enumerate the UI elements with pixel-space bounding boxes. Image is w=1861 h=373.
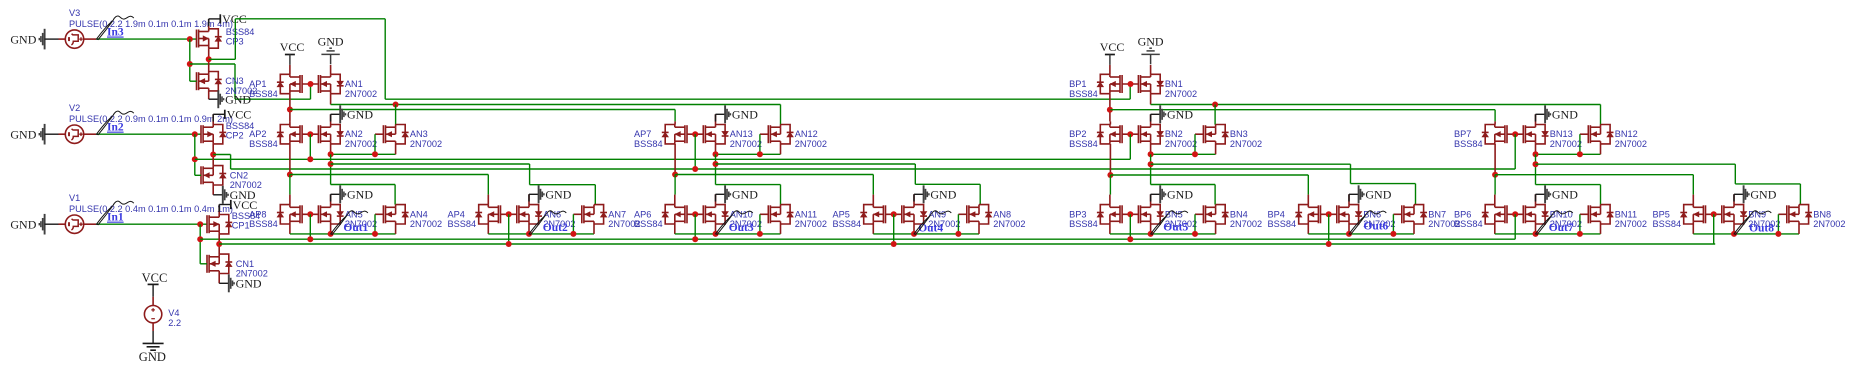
- transistor BN6 (2N7002 NMOS): [1337, 205, 1359, 224]
- node gate at In rail: [1127, 236, 1133, 242]
- wire BN1 source rail y=104.5: [1151, 104, 1601, 106]
- wire BP2/BN2 gate tie: [1122, 133, 1138, 135]
- wire elbow to BN4 drain: [1151, 184, 1216, 186]
- transistor CN2 (2N7002 NMOS): [201, 166, 223, 185]
- svg-text:2N7002: 2N7002: [345, 139, 377, 149]
- node AN13.src at rail164: [713, 161, 719, 167]
- svg-text:AP5: AP5: [833, 209, 850, 219]
- wire AP1 drain rail y=109.5: [290, 109, 675, 111]
- wire BN12 source lead: [1600, 144, 1602, 154]
- wire BP6 drain lead: [1494, 224, 1496, 234]
- wire BP1 drain rail y=109.7: [1110, 109, 1495, 111]
- transistor BP6 (BSS84 PMOS, mirrored): [1485, 205, 1507, 224]
- port squiggle Out3: [716, 215, 733, 234]
- transistor AN6 (2N7002 NMOS): [517, 205, 539, 224]
- node chain at AN10 source: [713, 231, 719, 237]
- svg-text:Out2: Out2: [543, 222, 568, 234]
- ground flag at AN13 drain: [715, 114, 717, 124]
- svg-text:BN7: BN7: [1428, 209, 1446, 219]
- node AN2.src at rail164: [328, 161, 334, 167]
- wire AN4 source lead: [395, 224, 397, 234]
- node In3 branch: [187, 61, 193, 67]
- wire BP5 source lead: [1692, 195, 1694, 205]
- node gate at In rail: [692, 236, 698, 242]
- wire BN4 drain lead: [1215, 204, 1217, 206]
- wire AP2 drain to AP8 source: [289, 175, 291, 195]
- svg-text:VCC: VCC: [227, 108, 252, 122]
- transistor CP2 (BSS84 PMOS): [201, 125, 223, 144]
- wire elbow to AN4 drain: [331, 184, 396, 186]
- wire BP5 drain lead: [1692, 224, 1694, 234]
- wire AP1 drain down: [289, 94, 291, 122]
- svg-text:CP2: CP2: [226, 131, 244, 141]
- node chain at AN2 source: [328, 151, 334, 157]
- transistor BN10 (2N7002 NMOS): [1523, 205, 1545, 224]
- wire out chain Out7: [1495, 233, 1601, 235]
- wire AP5 source lead: [872, 195, 874, 205]
- wire In1 vertical to CN1 gate: [199, 224, 201, 264]
- svg-text:2N7002: 2N7002: [1165, 89, 1197, 99]
- svg-text:GND: GND: [139, 350, 166, 364]
- transistor BP2 (BSS84 PMOS, mirrored): [1100, 125, 1122, 144]
- svg-text:2N7002: 2N7002: [730, 139, 762, 149]
- ground flag at V1 negative terminal: [39, 214, 44, 235]
- node gate at In rail: [891, 241, 897, 247]
- wire BP7/BN13 gate tie: [1507, 133, 1523, 135]
- wire V2 minus to source: [45, 133, 59, 135]
- wire V4 plus lead: [152, 284, 154, 296]
- svg-text:Out1: Out1: [343, 222, 368, 234]
- port squiggle In3: [97, 20, 114, 39]
- node In1 / CP1 gate: [197, 221, 203, 227]
- wire AP7 drain to AP6 source: [674, 175, 676, 195]
- transistor AP8 (BSS84 PMOS, mirrored): [280, 205, 302, 224]
- wire BN4 gate lead/drop: [1195, 213, 1203, 215]
- node BP7/BN13 gates: [1512, 131, 1518, 137]
- svg-text:BSS84: BSS84: [1069, 89, 1098, 99]
- ground flag at BN9 drain: [1733, 194, 1735, 204]
- wire In1' rail y=244.0: [219, 243, 1715, 245]
- wire gates down to In rail: [1328, 214, 1330, 244]
- wire CN3 gate lead: [190, 80, 197, 82]
- ground flag at CN2 source: [212, 185, 214, 195]
- transistor BN8 (2N7002 NMOS): [1787, 205, 1809, 224]
- transistor AP6 (BSS84 PMOS, mirrored): [665, 205, 687, 224]
- svg-text:BP7: BP7: [1454, 129, 1471, 139]
- wire AP8 drain lead: [289, 224, 291, 234]
- wire AN12 drain drop: [780, 105, 782, 125]
- wire BN12 drain drop: [1600, 105, 1602, 125]
- node BN13.src at rail164: [1533, 161, 1539, 167]
- wire inv3out riser up: [234, 19, 236, 60]
- svg-text:BSS84: BSS84: [1268, 219, 1297, 229]
- wire AP6 drain lead: [674, 224, 676, 234]
- wire AN2.src vertical: [330, 154, 332, 184]
- node In2 rail tap: [192, 156, 198, 162]
- wire BP5/BN9 gate tie: [1706, 213, 1722, 215]
- transistor AN11 (2N7002 NMOS): [768, 205, 790, 224]
- wire In2 rail y=159.3: [195, 158, 1131, 160]
- ground flag above BN1: [1150, 65, 1152, 74]
- wire out chain Out6: [1308, 233, 1414, 235]
- wire In3 vertical to CN3 gate: [189, 39, 191, 81]
- wire AN11 source lead: [780, 224, 782, 234]
- ground flag at BN13 drain: [1535, 114, 1537, 124]
- wire AP2/AN2 gate tie: [302, 133, 318, 135]
- svg-text:BSS84: BSS84: [226, 27, 255, 37]
- wire V4 minus lead: [152, 323, 154, 331]
- wire AP7 source feed: [674, 121, 676, 124]
- wire elbow to AN7 drain: [530, 184, 596, 186]
- port squiggle Out2: [529, 215, 546, 234]
- wire V3 minus to source: [45, 38, 59, 40]
- wire BN8 drain lead: [1798, 204, 1800, 206]
- svg-text:2N7002: 2N7002: [410, 219, 442, 229]
- transistor AN5 (2N7002 NMOS): [318, 205, 340, 224]
- voltage source V4 (2.2V DC): [144, 306, 161, 323]
- node chain at AN7 gate: [570, 231, 576, 237]
- voltage source V2 (pulse): [65, 125, 83, 143]
- wire BP1/BN1 gate tie: [1122, 83, 1138, 85]
- node chain at BN11 gate: [1577, 231, 1583, 237]
- ground flag at AN10 drain: [715, 194, 717, 204]
- svg-text:AN1: AN1: [345, 79, 363, 89]
- wire BN8 gate lead/drop: [1778, 213, 1786, 215]
- ground flag at BN5 drain: [1150, 194, 1152, 204]
- node BP1 drain rail tap: [1107, 107, 1113, 113]
- port squiggle Out4: [914, 215, 931, 234]
- wire rail164 A seg1: [331, 163, 530, 165]
- wire rail175 B seg1 to BP4 source: [1110, 174, 1308, 176]
- node BP2/BN2 gates: [1127, 131, 1133, 137]
- wire chain AN13 source - AN12 gate/source: [716, 153, 781, 155]
- transistor BP3 (BSS84 PMOS, mirrored): [1100, 205, 1122, 224]
- svg-text:AN12: AN12: [795, 129, 818, 139]
- node AP2/AN2 gates: [307, 131, 313, 137]
- wire elbow to AN11 drain: [716, 184, 781, 186]
- transistor BP4 (BSS84 PMOS, mirrored): [1299, 205, 1321, 224]
- node gate at In rail: [506, 241, 512, 247]
- svg-text:GND: GND: [347, 188, 373, 202]
- svg-text:PULSE(0 2.2 0.4m 0.1m 0.1m 0.4: PULSE(0 2.2 0.4m 0.1m 0.1m 0.4m 1m): [69, 204, 233, 214]
- node BP3/BN5 gates: [1127, 211, 1133, 217]
- transistor BN2 (2N7002 NMOS): [1138, 125, 1160, 144]
- wire AP6 source lead: [674, 195, 676, 205]
- transistor AP7 (BSS84 PMOS, mirrored): [665, 125, 687, 144]
- svg-text:BSS84: BSS84: [448, 219, 477, 229]
- wire BN11 drain lead: [1600, 204, 1602, 206]
- wire AN4 drain lead: [395, 204, 397, 206]
- svg-text:Out5: Out5: [1163, 221, 1188, 233]
- transistor BN3 (2N7002 NMOS): [1203, 125, 1225, 144]
- node BP4/BN6 gates: [1326, 211, 1332, 217]
- wire BN7 source lead: [1413, 224, 1415, 234]
- wire BP4/BN6 gate tie: [1321, 213, 1337, 215]
- node chain at AN6 source: [526, 231, 532, 237]
- wire AP2 drain down to rail174: [289, 144, 291, 175]
- node inverter2 output: [210, 152, 216, 158]
- port squiggle Out6: [1349, 215, 1366, 234]
- svg-text:V3: V3: [69, 8, 80, 18]
- svg-text:GND: GND: [1138, 35, 1164, 49]
- svg-text:CN1: CN1: [236, 259, 254, 269]
- node chain at AN3 gate drop: [372, 151, 378, 157]
- node AP1/AN1 gates: [308, 81, 314, 87]
- transistor AN4 (2N7002 NMOS): [383, 205, 405, 224]
- wire AN8 source lead: [978, 224, 980, 234]
- svg-text:GND: GND: [930, 188, 956, 202]
- node BP5/BN9 gates: [1711, 211, 1717, 217]
- node BP1/BN1 gates: [1128, 81, 1134, 87]
- wire BN2 source lead: [1150, 144, 1152, 154]
- wire inverter3 output: [208, 48, 210, 59]
- transistor AN1 (2N7002 NMOS): [318, 74, 340, 93]
- svg-text:BN8: BN8: [1813, 209, 1831, 219]
- svg-text:2N7002: 2N7002: [1813, 219, 1845, 229]
- svg-text:GND: GND: [732, 108, 758, 122]
- svg-text:V1: V1: [69, 193, 80, 203]
- node BP2 drain / rail175: [1107, 172, 1113, 178]
- svg-text:AN3: AN3: [410, 129, 428, 139]
- wire BP3/BN5 gate tie: [1122, 213, 1138, 215]
- svg-text:BN1: BN1: [1165, 79, 1183, 89]
- wire BN11 source lead: [1600, 224, 1602, 234]
- svg-text:BP3: BP3: [1069, 209, 1086, 219]
- wire AN11 drain lead: [780, 204, 782, 206]
- transistor AP2 (BSS84 PMOS, mirrored): [280, 125, 302, 144]
- node inverter1 output / In1' rail: [216, 241, 222, 247]
- svg-text:BP1: BP1: [1069, 79, 1086, 89]
- wire gates down to In rail: [309, 214, 311, 239]
- port squiggle In1: [97, 206, 114, 225]
- wire AP2 source from AP1 drain: [289, 121, 291, 124]
- wire V1 minus to source: [45, 223, 59, 225]
- svg-text:In2: In2: [107, 122, 124, 134]
- wire AP5/AN9 gate tie: [886, 213, 902, 215]
- transistor BN13 (2N7002 NMOS): [1523, 125, 1545, 144]
- node inverter3 output: [206, 56, 212, 62]
- wire chain BN2 source - BN3 gate/source: [1151, 153, 1216, 155]
- svg-text:V4: V4: [168, 308, 179, 318]
- wire In3 y=99.2 to A gates: [235, 98, 311, 100]
- svg-text:AP8: AP8: [249, 209, 266, 219]
- transistor AN13 (2N7002 NMOS): [703, 125, 725, 144]
- svg-text:GND: GND: [236, 277, 262, 291]
- wire BP7/BN13 gates to rail: [1514, 134, 1516, 169]
- ground symbol below V4: [143, 343, 164, 350]
- svg-text:GND: GND: [1552, 188, 1578, 202]
- wire AP6/AN10 gate tie: [687, 213, 703, 215]
- wire BN4 source lead: [1215, 224, 1217, 234]
- wire chain BN13 source - BN12 gate/source: [1536, 153, 1601, 155]
- wire BN2.src vertical: [1150, 154, 1152, 184]
- wire out chain Out1: [290, 233, 396, 235]
- svg-text:BSS84: BSS84: [634, 139, 663, 149]
- wire BN9 source lead: [1733, 224, 1735, 234]
- wire AP1/AN1 gate tie: [302, 83, 318, 85]
- wire In2 vertical to CN2 gate: [194, 134, 196, 175]
- wire AP7 drain down: [674, 144, 676, 175]
- wire BP2 drain down: [1109, 144, 1111, 175]
- node gate rail tap AP7: [692, 166, 698, 172]
- wire CN1 gate lead: [200, 263, 207, 265]
- wire AN3 drain drop: [395, 105, 397, 125]
- node BP6/BN10 gates: [1512, 211, 1518, 217]
- svg-text:2N7002: 2N7002: [795, 219, 827, 229]
- port squiggle Out7: [1536, 215, 1553, 234]
- svg-text:GND: GND: [347, 108, 373, 122]
- svg-text:AN11: AN11: [795, 209, 817, 219]
- wire out chain Out3: [675, 233, 781, 235]
- node AP4/AN6 gates: [506, 211, 512, 217]
- wire AN11 gate lead/drop: [760, 213, 768, 215]
- wire AN12 source lead: [780, 144, 782, 154]
- wire AP7/AN13 gates to rail: [694, 134, 696, 169]
- wire inverter1 output: [218, 234, 220, 254]
- VCC flag at CP3 source: [208, 19, 210, 29]
- transistor AP5 (BSS84 PMOS, mirrored): [864, 205, 886, 224]
- wire BP6/BN10 gate tie: [1507, 213, 1523, 215]
- wire BN13.src vertical: [1535, 154, 1537, 184]
- svg-text:2N7002: 2N7002: [1615, 219, 1647, 229]
- transistor CN3 (2N7002 NMOS): [197, 72, 219, 91]
- svg-text:GND: GND: [1365, 188, 1391, 202]
- transistor BN9 (2N7002 NMOS): [1722, 205, 1744, 224]
- svg-text:GND: GND: [225, 93, 251, 107]
- svg-text:BSS84: BSS84: [1454, 139, 1483, 149]
- svg-text:AP6: AP6: [634, 209, 651, 219]
- node AN3 drain tap: [393, 102, 399, 108]
- svg-text:BN11: BN11: [1615, 209, 1637, 219]
- node chain at AN5 source: [328, 231, 334, 237]
- wire out chain Out2: [488, 233, 594, 235]
- svg-text:2N7002: 2N7002: [410, 139, 442, 149]
- svg-text:CN3: CN3: [225, 76, 243, 86]
- svg-text:Out3: Out3: [729, 222, 754, 234]
- wire BN3 gate lead: [1195, 133, 1203, 135]
- wire BN6 source lead: [1348, 224, 1350, 234]
- wire In2' rail y=169.0: [231, 168, 1516, 170]
- wire BN11 gate lead/drop: [1580, 213, 1588, 215]
- svg-text:BSS84: BSS84: [1069, 139, 1098, 149]
- wire BP4 drain lead: [1307, 224, 1309, 234]
- svg-text:Out7: Out7: [1549, 222, 1574, 234]
- ground flag at AN5 drain: [330, 194, 332, 204]
- svg-text:AP2: AP2: [249, 129, 266, 139]
- svg-text:AP4: AP4: [448, 209, 465, 219]
- svg-text:GND: GND: [732, 188, 758, 202]
- svg-text:BSS84: BSS84: [1454, 219, 1483, 229]
- ground flag at AN9 drain: [913, 194, 915, 204]
- wire chain AN2 source - AN3 gate/source: [331, 153, 396, 155]
- transistor CP1 (BSS84 PMOS): [207, 215, 229, 234]
- node AP7/AN13 gates: [692, 131, 698, 137]
- wire rail174 A seg2 to AP5 source: [675, 174, 873, 176]
- wire BN7 drain lead: [1413, 204, 1415, 206]
- wire AP8 source lead: [289, 195, 291, 205]
- transistor AP1 (BSS84 PMOS, mirrored): [280, 74, 302, 93]
- svg-text:Out8: Out8: [1749, 223, 1774, 235]
- wire BP7 drain to BP6 source: [1494, 175, 1496, 195]
- node AP2 drain / rail174: [287, 172, 293, 178]
- wire CN2 gate lead: [195, 174, 201, 176]
- wire inv2out jog: [213, 154, 230, 156]
- wire In1 net from V1: [84, 223, 96, 225]
- svg-text:2N7002: 2N7002: [795, 139, 827, 149]
- svg-text:AN13: AN13: [730, 129, 753, 139]
- node chain at AN9 source: [911, 231, 917, 237]
- node chain at BN3 gate drop: [1192, 151, 1198, 157]
- node AP6/AN10 gates: [692, 211, 698, 217]
- node gate at In rail: [1326, 241, 1332, 247]
- svg-text:GND: GND: [545, 188, 571, 202]
- svg-text:AN4: AN4: [410, 209, 428, 219]
- transistor BN4 (2N7002 NMOS): [1203, 205, 1225, 224]
- wire AN6 source lead: [528, 224, 530, 234]
- wire AN13 source lead: [715, 144, 717, 154]
- wire BP2 source from BP1 drain: [1109, 121, 1111, 124]
- port squiggle Out1: [331, 215, 348, 234]
- svg-text:BSS84: BSS84: [249, 89, 278, 99]
- svg-text:GND: GND: [10, 32, 36, 46]
- transistor BN5 (2N7002 NMOS): [1138, 205, 1160, 224]
- transistor BN7 (2N7002 NMOS): [1402, 205, 1424, 224]
- transistor BN1 (2N7002 NMOS): [1138, 74, 1160, 93]
- wire BP7 drain down: [1494, 144, 1496, 175]
- transistor AN2 (2N7002 NMOS): [318, 125, 340, 144]
- svg-text:BP6: BP6: [1454, 209, 1471, 219]
- svg-text:VCC: VCC: [1100, 40, 1125, 54]
- wire AN1 source rail y=104.5: [331, 104, 781, 106]
- transistor BP7 (BSS84 PMOS, mirrored): [1485, 125, 1507, 144]
- wire AP2/AN2 gates to rail: [309, 134, 311, 159]
- node chain at BN10 source: [1533, 231, 1539, 237]
- port squiggle Out8: [1734, 215, 1751, 234]
- wire gates down to In rail: [893, 214, 895, 244]
- wire AN12 gate lead: [760, 133, 768, 135]
- svg-text:2N7002: 2N7002: [1230, 139, 1262, 149]
- wire rail164 B seg2: [1536, 163, 1736, 165]
- wire gates down to In rail: [1713, 214, 1715, 244]
- VCC flag at CP2 source: [212, 114, 214, 124]
- wire rail164 A seg2: [716, 163, 916, 165]
- svg-text:V2: V2: [69, 103, 80, 113]
- wire gates down to In rail: [508, 214, 510, 244]
- transistor AN7 (2N7002 NMOS): [582, 205, 604, 224]
- wire rail164 B seg1: [1151, 163, 1351, 165]
- wire elbow to AN8 drain: [915, 183, 980, 185]
- wire BP2/BN2 gates to rail: [1129, 134, 1131, 159]
- svg-text:GND: GND: [10, 128, 36, 142]
- svg-text:GND: GND: [1750, 188, 1776, 202]
- svg-text:Out6: Out6: [1363, 220, 1388, 232]
- svg-text:BSS84: BSS84: [249, 219, 278, 229]
- port squiggle In2: [97, 116, 114, 135]
- svg-text:AP1: AP1: [249, 79, 266, 89]
- wire AP4 source lead: [487, 195, 489, 205]
- node BN2.src at rail164: [1148, 161, 1154, 167]
- node chain at AN12 gate drop: [757, 151, 763, 157]
- transistor BP1 (BSS84 PMOS, mirrored): [1100, 74, 1122, 93]
- wire AP4/AN6 gate tie: [501, 213, 517, 215]
- node chain at BN7 gate: [1390, 231, 1396, 237]
- node In2 / CP2 gate: [192, 131, 198, 137]
- wire AN3 gate lead: [375, 133, 383, 135]
- svg-text:VCC: VCC: [142, 271, 168, 285]
- wire rail174 B seg2 to BP5 source: [1495, 174, 1693, 176]
- transistor CN1 (2N7002 NMOS): [207, 254, 229, 273]
- svg-text:2N7002: 2N7002: [1230, 219, 1262, 229]
